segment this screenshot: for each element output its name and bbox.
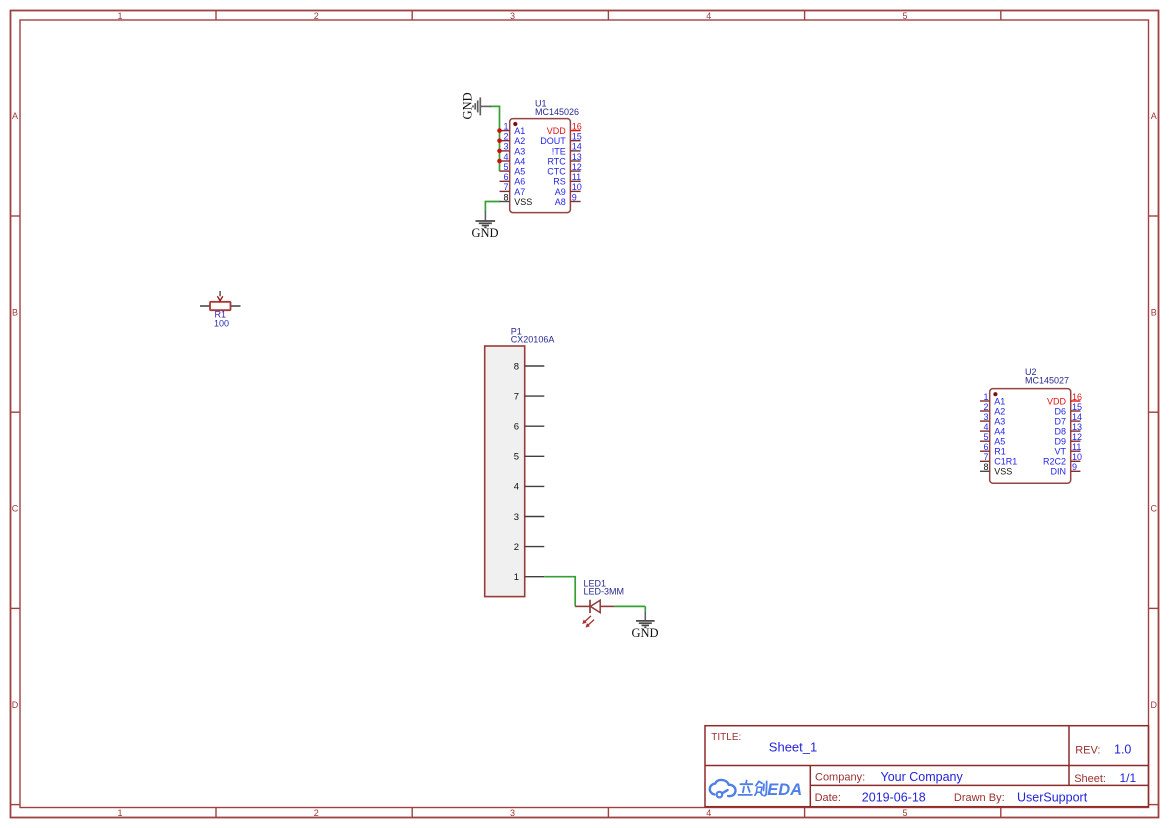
svg-text:REV:: REV: [1075, 744, 1100, 756]
svg-text:A3: A3 [994, 417, 1005, 427]
svg-text:4: 4 [514, 482, 519, 493]
svg-text:1: 1 [514, 572, 519, 583]
svg-text:A4: A4 [994, 427, 1005, 437]
svg-text:2019-06-18: 2019-06-18 [862, 791, 926, 805]
svg-text:1: 1 [117, 11, 122, 21]
svg-text:A5: A5 [994, 437, 1005, 447]
svg-text:3: 3 [983, 412, 988, 422]
svg-text:EDA: EDA [767, 781, 802, 799]
svg-text:R2C2: R2C2 [1043, 457, 1066, 467]
svg-text:8: 8 [514, 361, 519, 372]
svg-text:6: 6 [983, 442, 988, 452]
svg-text:4: 4 [503, 152, 508, 162]
svg-text:A7: A7 [514, 187, 525, 197]
svg-text:CTC: CTC [547, 167, 566, 177]
svg-text:GND: GND [460, 92, 474, 119]
svg-text:UserSupport: UserSupport [1017, 791, 1088, 805]
svg-text:12: 12 [572, 162, 582, 172]
svg-text:VDD: VDD [547, 126, 567, 136]
svg-text:D6: D6 [1054, 406, 1066, 416]
svg-text:1/1: 1/1 [1120, 771, 1137, 785]
svg-text:RS: RS [553, 177, 566, 187]
svg-text:VSS: VSS [514, 197, 532, 207]
svg-text:A1: A1 [514, 126, 525, 136]
svg-text:11: 11 [1072, 442, 1081, 452]
svg-text:MC145027: MC145027 [1025, 376, 1069, 386]
svg-text:A1: A1 [994, 396, 1005, 406]
svg-text:6: 6 [503, 172, 508, 182]
svg-text:14: 14 [1072, 412, 1082, 422]
svg-text:3: 3 [514, 512, 519, 523]
svg-text:5: 5 [983, 432, 988, 442]
svg-text:A5: A5 [514, 167, 525, 177]
svg-text:A6: A6 [514, 177, 525, 187]
svg-text:100: 100 [214, 318, 229, 328]
svg-text:2: 2 [314, 11, 319, 21]
svg-text:C1R1: C1R1 [994, 457, 1017, 467]
svg-text:13: 13 [1072, 422, 1082, 432]
svg-text:2: 2 [314, 808, 319, 818]
svg-text:VT: VT [1054, 447, 1066, 457]
svg-text:DIN: DIN [1051, 467, 1067, 477]
svg-text:C: C [12, 504, 19, 514]
svg-text:B: B [12, 307, 18, 317]
svg-text:RTC: RTC [547, 156, 566, 166]
svg-text:3: 3 [510, 11, 515, 21]
svg-text:4: 4 [983, 422, 988, 432]
svg-text:GND: GND [631, 626, 658, 640]
svg-text:1.0: 1.0 [1114, 743, 1131, 757]
svg-text:Sheet:: Sheet: [1074, 773, 1106, 785]
svg-text:10: 10 [1072, 452, 1082, 462]
svg-text:CX20106A: CX20106A [511, 335, 555, 345]
svg-text:Drawn By:: Drawn By: [954, 792, 1005, 804]
svg-text:7: 7 [503, 182, 508, 192]
svg-text:2: 2 [503, 132, 508, 142]
svg-text:TITLE:: TITLE: [711, 732, 741, 743]
svg-text:11: 11 [572, 172, 581, 182]
svg-text:15: 15 [1072, 402, 1082, 412]
svg-text:LED-3MM: LED-3MM [584, 587, 625, 597]
svg-text:3: 3 [503, 142, 508, 152]
svg-text:1: 1 [983, 392, 988, 402]
svg-text:5: 5 [514, 452, 519, 463]
svg-text:8: 8 [983, 462, 988, 472]
svg-text:DOUT: DOUT [540, 136, 566, 146]
svg-text:6: 6 [514, 422, 519, 433]
svg-text:C: C [1151, 504, 1158, 514]
svg-text:A2: A2 [514, 136, 525, 146]
svg-text:D8: D8 [1054, 427, 1066, 437]
svg-text:5: 5 [902, 808, 907, 818]
svg-text:!TE: !TE [552, 146, 566, 156]
svg-text:Company:: Company: [815, 772, 865, 784]
svg-text:A9: A9 [555, 187, 566, 197]
svg-text:5: 5 [902, 11, 907, 21]
svg-text:Your Company: Your Company [881, 770, 964, 784]
svg-text:D: D [12, 700, 19, 710]
svg-text:4: 4 [706, 808, 711, 818]
svg-text:13: 13 [572, 152, 582, 162]
svg-text:15: 15 [572, 132, 582, 142]
svg-text:2: 2 [514, 542, 519, 553]
svg-text:VSS: VSS [994, 467, 1012, 477]
svg-text:D: D [1151, 700, 1158, 710]
svg-text:A4: A4 [514, 156, 525, 166]
svg-text:5: 5 [503, 162, 508, 172]
svg-text:D7: D7 [1054, 417, 1066, 427]
svg-text:MC145026: MC145026 [535, 107, 579, 117]
svg-text:12: 12 [1072, 432, 1082, 442]
svg-text:9: 9 [1072, 462, 1077, 472]
svg-text:2: 2 [983, 402, 988, 412]
svg-text:A3: A3 [514, 146, 525, 156]
svg-text:A: A [12, 111, 18, 121]
svg-text:GND: GND [471, 226, 498, 240]
svg-text:D9: D9 [1054, 437, 1066, 447]
svg-text:VDD: VDD [1047, 396, 1067, 406]
svg-text:9: 9 [572, 192, 577, 202]
svg-text:10: 10 [572, 182, 582, 192]
svg-text:7: 7 [983, 452, 988, 462]
svg-text:4: 4 [706, 11, 711, 21]
svg-text:16: 16 [1072, 392, 1082, 402]
svg-text:1: 1 [117, 808, 122, 818]
svg-text:1: 1 [503, 121, 508, 131]
svg-text:B: B [1151, 307, 1157, 317]
svg-text:14: 14 [572, 142, 582, 152]
svg-text:A8: A8 [555, 197, 566, 207]
svg-text:Sheet_1: Sheet_1 [769, 739, 817, 754]
svg-text:A2: A2 [994, 406, 1005, 416]
svg-text:8: 8 [503, 192, 508, 202]
svg-text:7: 7 [514, 391, 519, 402]
svg-text:16: 16 [572, 121, 582, 131]
svg-text:3: 3 [510, 808, 515, 818]
svg-text:R1: R1 [994, 447, 1006, 457]
svg-text:A: A [1151, 111, 1157, 121]
svg-text:Date:: Date: [815, 792, 841, 804]
